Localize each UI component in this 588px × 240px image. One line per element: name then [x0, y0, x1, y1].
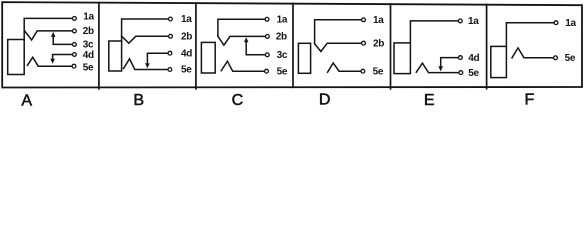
relay coil E — [394, 43, 410, 74]
terminal 2b of D — [362, 41, 366, 45]
svg-text:5e: 5e — [83, 63, 94, 74]
break contact spring on 2b of C — [218, 36, 265, 45]
terminal 4d of A — [73, 53, 77, 57]
divider B/C — [195, 3, 197, 89]
panel frame (outer box around all six diagrams) — [2, 2, 582, 87]
svg-text:5e: 5e — [468, 68, 479, 79]
relay coil A — [8, 40, 25, 75]
relay coil C — [201, 42, 215, 73]
terminal 4d of B — [168, 51, 172, 55]
svg-text:D: D — [319, 92, 331, 109]
svg-text:1a: 1a — [565, 18, 576, 29]
terminal 4d of E — [459, 56, 463, 60]
wire: terminal 1a of E down to coil — [410, 21, 458, 43]
make arrow from 4d of E to 5e line — [441, 58, 459, 67]
divider C/D — [292, 4, 294, 88]
make arrow from 4d of B to 5e line — [147, 53, 167, 63]
break contact spring on 5e of B — [124, 59, 168, 70]
wire: terminal 1a of F down to coil — [506, 23, 553, 47]
divider A/B — [98, 3, 100, 89]
svg-text:2b: 2b — [83, 26, 94, 37]
relay coil B — [109, 41, 122, 71]
svg-text:4d: 4d — [83, 50, 94, 61]
wire: terminal 1a of B down to coil — [122, 19, 169, 41]
relay coil D — [298, 43, 310, 73]
svg-text:4d: 4d — [468, 53, 479, 64]
divider D/E — [390, 4, 392, 89]
break contact spring on 5e of C — [221, 61, 264, 71]
divider E/F — [486, 5, 488, 89]
svg-text:F: F — [525, 92, 535, 109]
svg-text:5e: 5e — [565, 53, 576, 64]
terminal 2b of C — [266, 35, 270, 39]
svg-text:5e: 5e — [277, 66, 288, 77]
svg-text:4d: 4d — [181, 48, 192, 59]
terminal 1a of C — [265, 17, 269, 21]
terminal 2b of B — [169, 34, 173, 38]
terminal 1a of D — [362, 18, 366, 22]
break contact spring on 2b of B — [122, 36, 169, 43]
terminal 1a of E — [458, 19, 462, 23]
svg-text:B: B — [133, 92, 144, 109]
make arrow from 3c of A to 2b line — [53, 37, 72, 45]
svg-text:1a: 1a — [468, 16, 479, 27]
break contact spring on 5e of E — [416, 63, 458, 73]
break contact spring on 2b of D — [315, 43, 362, 51]
svg-text:1a: 1a — [277, 15, 288, 26]
svg-text:3c: 3c — [277, 50, 288, 61]
break contact spring on 2b of A — [25, 31, 72, 40]
wire: terminal 1a of D with drop — [315, 20, 362, 44]
svg-text:1a: 1a — [373, 15, 384, 26]
break contact spring on 5e of F — [512, 48, 553, 58]
svg-text:C: C — [232, 92, 244, 109]
svg-text:1a: 1a — [181, 14, 192, 25]
make arrow from 4d of A to 5e line — [53, 55, 72, 60]
break contact spring on 5e of D — [328, 63, 361, 72]
terminal 1a of B — [169, 17, 173, 21]
wire: terminal 1a of A down to coil — [24, 18, 72, 39]
terminal 1a of A — [73, 17, 77, 21]
make arrow from 3c of C to 2b line — [246, 42, 265, 55]
svg-text:1a: 1a — [83, 12, 94, 23]
svg-text:5e: 5e — [181, 65, 192, 76]
svg-text:5e: 5e — [373, 66, 384, 77]
break contact spring on 5e of A — [27, 57, 71, 66]
svg-text:2b: 2b — [373, 38, 384, 49]
terminal 5e of E — [459, 71, 463, 75]
terminal 2b of A — [73, 29, 77, 33]
terminal 5e of F — [554, 56, 558, 60]
svg-text:E: E — [424, 92, 435, 109]
svg-text:A: A — [21, 92, 32, 109]
terminal 3c of C — [265, 53, 269, 57]
wire: terminal 1a of C with drop — [218, 19, 265, 36]
terminal 5e of B — [168, 68, 172, 72]
svg-text:2b: 2b — [276, 32, 287, 43]
terminal 5e of D — [361, 69, 365, 73]
svg-text:2b: 2b — [181, 32, 192, 43]
terminal 5e of C — [265, 69, 269, 73]
terminal 1a of F — [554, 21, 558, 25]
terminal 3c of A — [73, 43, 77, 47]
terminal 5e of A — [72, 64, 76, 68]
relay coil F — [491, 46, 507, 77]
